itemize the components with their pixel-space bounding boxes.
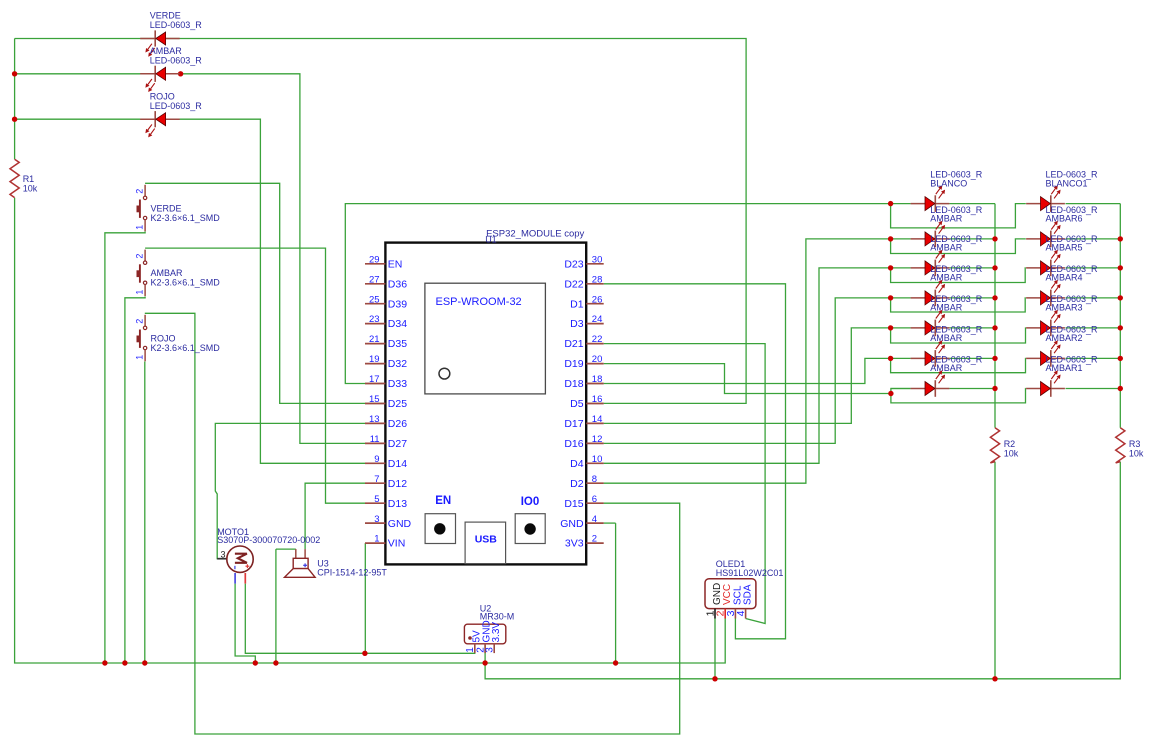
svg-text:R2: R2 bbox=[1004, 439, 1016, 449]
svg-text:S3070P-300070720-0002: S3070P-300070720-0002 bbox=[217, 535, 320, 545]
svg-text:K2-3.6×6.1_SMD: K2-3.6×6.1_SMD bbox=[151, 213, 221, 223]
svg-text:10k: 10k bbox=[1129, 449, 1144, 459]
svg-text:D18: D18 bbox=[564, 378, 583, 390]
svg-text:30: 30 bbox=[592, 254, 603, 265]
svg-text:D25: D25 bbox=[388, 398, 407, 410]
svg-text:USB: USB bbox=[475, 534, 498, 546]
svg-text:28: 28 bbox=[592, 274, 603, 285]
svg-text:9: 9 bbox=[374, 454, 379, 465]
svg-text:R1: R1 bbox=[23, 174, 35, 184]
svg-text:13: 13 bbox=[369, 414, 380, 425]
svg-text:4: 4 bbox=[592, 514, 597, 525]
svg-text:3: 3 bbox=[374, 514, 379, 525]
svg-text:3: 3 bbox=[485, 647, 496, 653]
svg-text:EN: EN bbox=[435, 495, 451, 507]
svg-text:17: 17 bbox=[369, 374, 380, 385]
svg-text:D26: D26 bbox=[388, 418, 407, 430]
svg-text:2: 2 bbox=[592, 534, 597, 545]
svg-text:10: 10 bbox=[592, 454, 603, 465]
svg-text:AMBAR: AMBAR bbox=[150, 46, 183, 56]
svg-text:AMBAR: AMBAR bbox=[930, 243, 963, 253]
svg-text:AMBAR5: AMBAR5 bbox=[1046, 243, 1083, 253]
svg-text:AMBAR: AMBAR bbox=[930, 273, 963, 283]
svg-text:SDA: SDA bbox=[743, 584, 754, 605]
svg-text:2: 2 bbox=[134, 319, 144, 324]
svg-text:2: 2 bbox=[134, 189, 144, 194]
svg-text:D2: D2 bbox=[570, 478, 584, 490]
svg-text:HS91L02W2C01: HS91L02W2C01 bbox=[716, 568, 784, 578]
svg-text:AMBAR: AMBAR bbox=[930, 303, 963, 313]
svg-text:MR30-M: MR30-M bbox=[480, 612, 515, 622]
svg-text:1: 1 bbox=[374, 534, 379, 545]
svg-text:20: 20 bbox=[592, 354, 603, 365]
svg-text:D19: D19 bbox=[564, 358, 583, 370]
svg-text:5: 5 bbox=[374, 494, 379, 505]
svg-text:D14: D14 bbox=[388, 458, 407, 470]
svg-text:26: 26 bbox=[592, 294, 603, 305]
svg-text:U1: U1 bbox=[485, 234, 497, 244]
svg-text:LED-0603_R: LED-0603_R bbox=[150, 56, 203, 66]
svg-text:29: 29 bbox=[369, 254, 380, 265]
svg-text:K2-3.6×6.1_SMD: K2-3.6×6.1_SMD bbox=[151, 343, 221, 353]
svg-text:21: 21 bbox=[369, 334, 380, 345]
svg-text:8: 8 bbox=[592, 474, 597, 485]
svg-text:D13: D13 bbox=[388, 498, 407, 510]
svg-text:IO0: IO0 bbox=[521, 496, 540, 508]
svg-text:D4: D4 bbox=[570, 458, 584, 470]
svg-text:ROJO: ROJO bbox=[150, 91, 175, 101]
svg-text:R3: R3 bbox=[1129, 439, 1141, 449]
svg-text:BLANCO: BLANCO bbox=[930, 178, 967, 188]
svg-text:12: 12 bbox=[592, 434, 603, 445]
svg-text:3V3: 3V3 bbox=[565, 538, 584, 550]
svg-text:18: 18 bbox=[592, 374, 603, 385]
svg-text:D35: D35 bbox=[388, 338, 407, 350]
svg-text:2: 2 bbox=[134, 254, 144, 259]
svg-text:D3: D3 bbox=[570, 318, 584, 330]
svg-text:AMBAR2: AMBAR2 bbox=[1046, 333, 1083, 343]
svg-text:GND: GND bbox=[560, 518, 584, 530]
svg-text:AMBAR: AMBAR bbox=[930, 333, 963, 343]
svg-text:7: 7 bbox=[374, 474, 379, 485]
svg-text:K2-3.6×6.1_SMD: K2-3.6×6.1_SMD bbox=[151, 278, 221, 288]
svg-text:1: 1 bbox=[134, 290, 144, 295]
svg-text:D22: D22 bbox=[564, 278, 583, 290]
svg-text:D17: D17 bbox=[564, 418, 583, 430]
svg-text:D34: D34 bbox=[388, 318, 407, 330]
svg-text:1: 1 bbox=[134, 355, 144, 360]
svg-text:CPI-1514-12-95T: CPI-1514-12-95T bbox=[317, 568, 387, 578]
svg-text:AMBAR1: AMBAR1 bbox=[1046, 363, 1083, 373]
svg-text:LED-0603_R: LED-0603_R bbox=[150, 101, 203, 111]
svg-text:16: 16 bbox=[592, 394, 603, 405]
svg-text:D39: D39 bbox=[388, 298, 407, 310]
svg-text:6: 6 bbox=[592, 494, 597, 505]
svg-text:LED-0603_R: LED-0603_R bbox=[150, 20, 203, 30]
svg-text:1: 1 bbox=[134, 225, 144, 230]
svg-text:AMBAR: AMBAR bbox=[930, 363, 963, 373]
svg-text:ESP32_MODULE copy: ESP32_MODULE copy bbox=[486, 229, 584, 240]
svg-text:D16: D16 bbox=[564, 438, 583, 450]
svg-text:10k: 10k bbox=[23, 184, 38, 194]
svg-text:AMBAR4: AMBAR4 bbox=[1046, 273, 1083, 283]
svg-text:AMBAR6: AMBAR6 bbox=[1046, 214, 1083, 224]
svg-text:10k: 10k bbox=[1004, 449, 1019, 459]
svg-text:BLANCO1: BLANCO1 bbox=[1046, 178, 1088, 188]
svg-text:27: 27 bbox=[369, 274, 380, 285]
svg-text:D12: D12 bbox=[388, 478, 407, 490]
svg-text:11: 11 bbox=[370, 434, 380, 445]
svg-text:D5: D5 bbox=[570, 398, 584, 410]
svg-text:AMBAR: AMBAR bbox=[930, 214, 963, 224]
svg-text:D36: D36 bbox=[388, 278, 407, 290]
svg-text:23: 23 bbox=[369, 314, 380, 325]
svg-text:GND: GND bbox=[388, 518, 412, 530]
svg-text:22: 22 bbox=[592, 334, 603, 345]
svg-text:24: 24 bbox=[592, 314, 603, 325]
svg-text:D21: D21 bbox=[564, 338, 583, 350]
svg-text:3: 3 bbox=[221, 549, 226, 559]
svg-text:14: 14 bbox=[592, 414, 603, 425]
svg-text:AMBAR3: AMBAR3 bbox=[1046, 303, 1083, 313]
svg-text:D23: D23 bbox=[564, 258, 583, 270]
svg-text:D27: D27 bbox=[388, 438, 407, 450]
svg-text:ESP-WROOM-32: ESP-WROOM-32 bbox=[436, 296, 522, 308]
svg-text:D32: D32 bbox=[388, 358, 407, 370]
svg-text:VIN: VIN bbox=[388, 538, 406, 550]
svg-text:15: 15 bbox=[369, 394, 380, 405]
svg-text:VERDE: VERDE bbox=[150, 11, 181, 21]
svg-text:D1: D1 bbox=[570, 298, 584, 310]
svg-text:D33: D33 bbox=[388, 378, 407, 390]
svg-text:19: 19 bbox=[369, 354, 380, 365]
svg-text:4: 4 bbox=[735, 610, 747, 616]
svg-text:D15: D15 bbox=[564, 498, 583, 510]
svg-text:EN: EN bbox=[388, 258, 403, 270]
svg-text:25: 25 bbox=[369, 294, 380, 305]
svg-text:3.3V: 3.3V bbox=[491, 622, 502, 643]
